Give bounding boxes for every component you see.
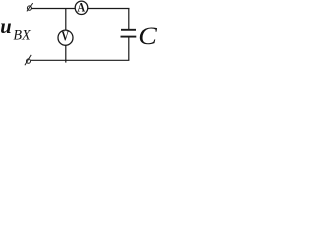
svg-text:A: A (77, 0, 85, 15)
node junction voltmeter top (65, 9, 67, 31)
svg-text:BX: BX (13, 27, 32, 43)
wire right vertical bottom (128, 37, 130, 61)
wire top rail right segment (88, 8, 130, 10)
wire bottom rail (31, 59, 129, 61)
voltmeter PV1 (58, 28, 73, 45)
terminal input bottom (25, 55, 31, 65)
capacitor C plate bottom (121, 36, 137, 38)
wire right vertical top (128, 9, 130, 30)
wire top rail left segment (32, 8, 76, 10)
svg-text:C: C (138, 21, 157, 50)
wire voltmeter bottom (65, 45, 67, 63)
ammeter PA1 (75, 0, 88, 15)
terminal input top (27, 3, 33, 11)
capacitor C plate top (121, 29, 136, 31)
svg-text:u: u (0, 16, 11, 38)
svg-text:V: V (61, 28, 69, 44)
